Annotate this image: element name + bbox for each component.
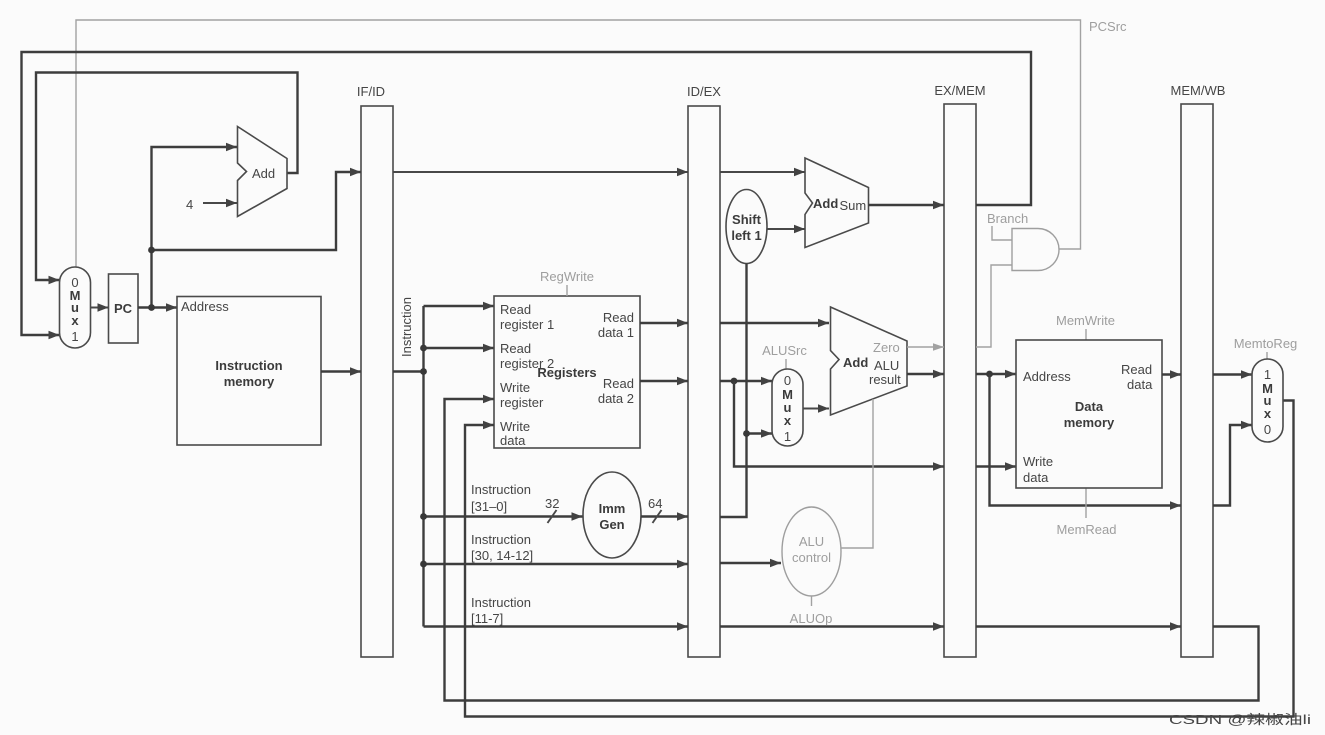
svg-text:PC: PC (114, 301, 133, 316)
svg-text:EX/MEM: EX/MEM (934, 83, 985, 98)
svg-text:Add: Add (252, 166, 275, 181)
node junction read data 2 (731, 378, 738, 385)
node junction bus instruction in (420, 368, 427, 375)
wire PC+4: Add output up, left, down to PC mux input 0 (36, 73, 298, 285)
svg-text:ALU: ALU (874, 358, 899, 373)
register PC (109, 274, 139, 343)
svg-text:MemRead: MemRead (1057, 522, 1117, 537)
svg-text:Zero: Zero (873, 340, 900, 355)
svg-text:Address: Address (181, 299, 229, 314)
wire mux to PC (91, 303, 109, 311)
node ALUSrc label and tick (762, 343, 807, 369)
svg-text:Write: Write (500, 419, 530, 434)
svg-text:data: data (1023, 470, 1049, 485)
node MemWrite label and tick (1056, 313, 1115, 340)
wire Instruction[11-7] bus to ID/EX (424, 622, 689, 630)
svg-text:0: 0 (1264, 422, 1271, 437)
node ALUOp label and tick (790, 597, 833, 627)
instruction memory (177, 297, 321, 446)
constant 4 input to Add (186, 197, 237, 212)
node junction bus imm tap (420, 513, 427, 520)
node Instruction label (vertical) (399, 297, 414, 357)
svg-text:Add: Add (843, 355, 868, 370)
adder Add (PC+4) (238, 127, 288, 217)
svg-text:Instruction: Instruction (471, 595, 531, 610)
wire Imm Gen to ID/EX with 64 slash (641, 496, 688, 523)
svg-text:ALUOp: ALUOp (790, 611, 833, 626)
wire ID/EX rd to EX/MEM (720, 622, 944, 630)
svg-text:data 1: data 1 (598, 325, 634, 340)
node junction bus funct tap (420, 561, 427, 568)
wire ALUSrc mux output to ALU bottom input (803, 404, 829, 412)
wire Zero flag ALU to EX/MEM (gray) (907, 343, 944, 351)
node MemRead label and tick (1057, 488, 1117, 537)
svg-text:control: control (792, 550, 831, 565)
svg-text:Read: Read (1121, 362, 1152, 377)
adder Add Sum (branch target) (805, 158, 869, 248)
wire ID/EX PC to Add Sum top input (720, 168, 805, 176)
svg-text:ALUSrc: ALUSrc (762, 343, 807, 358)
wire Read data 2 ID/EX to ALUSrc mux input 0 (720, 377, 772, 385)
svg-text:Registers: Registers (537, 365, 596, 380)
svg-text:[30, 14-12]: [30, 14-12] (471, 548, 533, 563)
svg-text:0: 0 (784, 373, 791, 388)
node PCSrc label (1089, 19, 1127, 34)
svg-text:Read: Read (500, 302, 531, 317)
svg-text:Read: Read (603, 376, 634, 391)
svg-text:Imm: Imm (599, 501, 626, 516)
svg-text:IF/ID: IF/ID (357, 84, 385, 99)
wire Read data memory to MEM/WB (1162, 370, 1181, 378)
svg-text:data 2: data 2 (598, 391, 634, 406)
wire Zero from EX/MEM to AND gate (976, 265, 1012, 347)
wire write data from WB mux back to Registers Write data (465, 401, 1294, 717)
mux MemtoReg (1/0) (1252, 359, 1283, 442)
svg-text:1: 1 (784, 429, 791, 444)
node junction PC output (148, 304, 155, 311)
svg-text:Sum: Sum (840, 198, 867, 213)
svg-text:Instruction: Instruction (215, 358, 282, 373)
wire instruction IF/ID to bus (393, 370, 424, 372)
svg-text:result: result (869, 372, 901, 387)
wire PC value to IF/ID (152, 168, 362, 250)
wire bus to Read register 1 (424, 302, 495, 310)
svg-text:1: 1 (1264, 367, 1271, 382)
svg-text:Data: Data (1075, 399, 1104, 414)
wire Instruction[31-0] bus to Imm Gen with 32 slash (424, 496, 583, 523)
wire shift left 1 to Add Sum bottom input (767, 225, 805, 233)
svg-text:[31–0]: [31–0] (471, 499, 507, 514)
wire instruction bus vertical (422, 306, 424, 627)
svg-text:x: x (784, 413, 792, 428)
wire imm tap to ALUSrc mux input 1 (747, 429, 773, 437)
svg-text:ALU: ALU (799, 534, 824, 549)
ALU control ellipse (782, 507, 841, 596)
svg-text:[11-7]: [11-7] (471, 611, 503, 626)
wire Instruction[30,14-12] bus to ID/EX (424, 560, 689, 568)
svg-text:x: x (1264, 406, 1272, 421)
ALU (Add) (831, 307, 908, 415)
svg-text:x: x (71, 313, 79, 328)
wire bus to Read register 2 (424, 344, 495, 352)
node Instruction [30, 14-12] label (471, 532, 533, 563)
svg-text:Write: Write (1023, 454, 1053, 469)
svg-text:register: register (500, 395, 544, 410)
svg-text:32: 32 (545, 496, 559, 511)
pipeline register IF/ID (357, 84, 393, 657)
svg-text:Add: Add (813, 196, 838, 211)
svg-text:1: 1 (71, 329, 78, 344)
wire imm value ID/EX right to shift-left-1 / ALUSrc mux (720, 264, 747, 518)
svg-text:RegWrite: RegWrite (540, 269, 594, 284)
shift left 1 ellipse (726, 190, 767, 264)
wire ALU result MEM/WB to WB mux input 0 (1213, 421, 1252, 506)
registers block (494, 296, 640, 448)
wire Read data 1 ID/EX to ALU (720, 319, 829, 327)
svg-text:Read: Read (500, 341, 531, 356)
node junction PC to IF/ID tap (148, 247, 155, 254)
svg-text:MEM/WB: MEM/WB (1171, 83, 1226, 98)
wire write register number MEM/WB back to Registers Write register (445, 395, 1259, 701)
svg-text:left 1: left 1 (731, 228, 761, 243)
wire Read data 2 to ID/EX (640, 377, 688, 385)
node Instruction [11-7] label (471, 595, 531, 626)
wire Read data 1 to ID/EX (640, 319, 688, 327)
svg-text:Gen: Gen (599, 517, 624, 532)
svg-text:data: data (1127, 377, 1153, 392)
wire Read data 2 down and to EX/MEM (store data) (734, 381, 944, 471)
svg-text:PCSrc: PCSrc (1089, 19, 1127, 34)
wire ALU control output to ALU (841, 399, 873, 548)
wire Add Sum output to EX/MEM (869, 201, 945, 209)
wire instruction memory to IF/ID (321, 367, 361, 375)
wire store data EX/MEM to Data memory Write data (976, 462, 1016, 470)
mux PC source (0/1) (60, 267, 91, 348)
svg-text:64: 64 (648, 496, 662, 511)
wire rd EX/MEM to MEM/WB (976, 622, 1181, 630)
node MemtoReg label and tick (1234, 336, 1298, 359)
wire ALU result bypass down to MEM/WB (990, 374, 1182, 510)
wire funct ID/EX to ALU control (720, 559, 781, 567)
svg-text:Branch: Branch (987, 211, 1028, 226)
node Instruction [31-0] label (471, 482, 531, 514)
svg-text:Shift: Shift (732, 212, 762, 227)
svg-text:Write: Write (500, 380, 530, 395)
node junction imm to mux (743, 430, 750, 437)
svg-text:MemWrite: MemWrite (1056, 313, 1115, 328)
svg-text:memory: memory (224, 374, 275, 389)
svg-text:register 1: register 1 (500, 317, 554, 332)
mux ALUSrc (0/1) (772, 369, 803, 446)
wire ALU result EX/MEM to Data memory Address (976, 370, 1016, 378)
svg-text:4: 4 (186, 197, 193, 212)
svg-text:Instruction: Instruction (471, 532, 531, 547)
node RegWrite label and tick (540, 269, 594, 296)
svg-text:memory: memory (1064, 415, 1115, 430)
watermark CSDN (1169, 712, 1311, 727)
wire PC vertical up to Add input (152, 143, 238, 308)
svg-text:data: data (500, 433, 526, 448)
node junction bus read reg 2 (420, 345, 427, 352)
wire ALU result to EX/MEM (907, 370, 944, 378)
svg-text:Address: Address (1023, 369, 1071, 384)
wire PC to instruction memory Address (138, 303, 177, 311)
imm gen ellipse (583, 472, 641, 558)
svg-text:Instruction: Instruction (471, 482, 531, 497)
data memory block (1016, 340, 1162, 488)
svg-text:Read: Read (603, 310, 634, 325)
pipeline register MEM/WB (1171, 83, 1226, 657)
svg-text:MemtoReg: MemtoReg (1234, 336, 1298, 351)
pipeline register EX/MEM (934, 83, 985, 657)
AND gate (branch) (1012, 229, 1059, 271)
node junction ALU result (986, 371, 993, 378)
svg-text:ID/EX: ID/EX (687, 84, 721, 99)
svg-text:CSDN @辣椒油li: CSDN @辣椒油li (1169, 712, 1311, 727)
wire branch target: EX/MEM out right, up, left to PC mux input 1 (22, 52, 1032, 339)
wire read data MEM/WB to WB mux input 1 (1213, 370, 1252, 378)
svg-text:Instruction: Instruction (399, 297, 414, 357)
wire PC value IF/ID to ID/EX (393, 168, 688, 176)
node Branch label and wire into AND gate (987, 211, 1028, 240)
wire PCSrc from branch AND gate up and left to PC mux select (76, 20, 1081, 267)
pipeline register ID/EX (687, 84, 721, 657)
